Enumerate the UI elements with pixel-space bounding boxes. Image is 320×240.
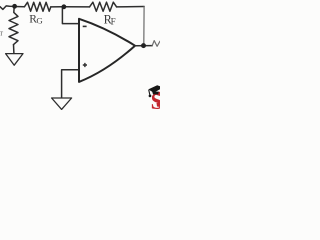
op-amp minus sign [83,25,87,27]
wire feedback vertical [143,7,145,46]
resistor R1 (vertical, unlabeled) [9,7,18,45]
logo: tassel [149,90,150,95]
resistor RF [90,2,117,11]
logo: red S patch bottom-right [157,103,161,108]
logo: red S patch top-right [156,92,160,96]
wire R1 to ground [13,45,15,54]
op-amp U1 [79,19,135,82]
ground G2 [52,98,72,109]
svg-text:T: T [0,30,3,37]
logo: graduation cap board [148,85,160,93]
wire top rail left [15,6,25,8]
wire input from left edge (partial zigzag) [0,6,15,9]
node OUT junction dot [141,43,146,48]
wire output [135,45,152,47]
resistor RG [24,2,50,11]
svg-text:G: G [36,16,43,26]
node A junction dot [12,4,17,9]
op-amp plus sign [83,63,87,67]
wire noninverting input to ground [62,70,79,98]
node B junction dot [62,4,67,9]
wire node B to RF [63,6,90,8]
svg-text:F: F [111,16,116,26]
wire RF to top-right corner [117,6,145,8]
logo: cap base [152,92,159,95]
logo: tassel knob [149,95,152,98]
wire RG to node B [51,6,63,8]
ground G1 [6,54,23,66]
resistor R2 (partial, right edge) [152,41,160,47]
wire node B down to inverting input [62,8,79,24]
